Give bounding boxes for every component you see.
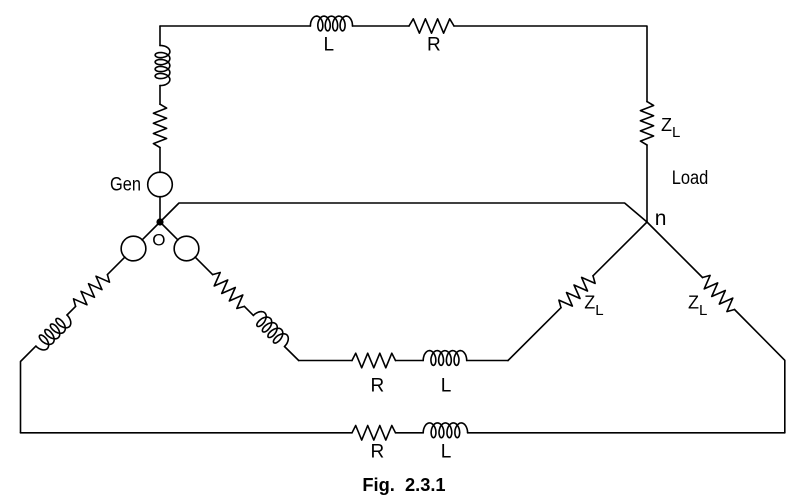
wire diagonal up toward ZL (load phase C): [508, 308, 561, 361]
resistor R (middle line): [352, 353, 396, 368]
wire between resistor and coil (phase B): [67, 306, 76, 315]
resistor (gen phase B, diagonal): [74, 275, 110, 307]
wire from top-left corner to inductor L (top line): [160, 25, 310, 27]
wire from node n down-right to ZL (load phase B): [647, 222, 703, 278]
resistor (gen phase C, diagonal): [213, 273, 245, 309]
wire from R to top-right corner and down to ZL (load phase A): [454, 26, 647, 102]
inductor L (middle line): [423, 351, 467, 366]
svg-text:ZL: ZL: [688, 293, 707, 319]
wire from resistor to Gen source circle: [159, 148, 161, 173]
resistor ZL (load phase B, diagonal): [703, 275, 735, 311]
svg-text:L: L: [324, 35, 335, 56]
wire from ZL to bottom-right corner and down (load phase B): [735, 310, 785, 433]
wire between L and R (bottom line): [396, 432, 424, 434]
svg-text:R: R: [427, 35, 441, 56]
inductor (gen phase A, vertical coil): [155, 46, 170, 86]
wire from node O to node n (neutral link): [160, 203, 647, 222]
svg-text:L: L: [441, 442, 452, 463]
wire from L to diagonal corner (middle line): [467, 360, 508, 362]
resistor ZL (load phase A, vertical): [640, 102, 653, 145]
svg-text:Load: Load: [672, 168, 709, 189]
wire from coil to corner of middle line (phase C): [285, 347, 299, 361]
wire from ZL to node n (load phase C): [593, 222, 647, 276]
generator source (circle, phase B lower-left): [121, 236, 146, 261]
wire from R to bottom-left corner (bottom line): [21, 432, 353, 434]
svg-text:Fig. 2.3.1: Fig. 2.3.1: [362, 475, 445, 495]
wire from Gen circle to star point O: [159, 197, 161, 222]
wire from phase-B circle to resistor: [107, 257, 125, 275]
wire from O to phase-B source circle: [142, 222, 160, 240]
resistor R (top line): [409, 19, 454, 33]
inductor L (bottom line): [423, 423, 467, 438]
svg-text:O: O: [152, 231, 165, 250]
svg-text:R: R: [371, 442, 385, 463]
svg-text:n: n: [655, 207, 667, 230]
svg-text:ZL: ZL: [584, 293, 603, 319]
generator source Gen (circle, phase A): [148, 172, 173, 197]
svg-text:Gen: Gen: [110, 174, 141, 195]
wire from corner to resistor R (middle line): [299, 360, 352, 362]
generator source (circle, phase C lower-right): [174, 236, 199, 261]
wire from phase-C circle to resistor: [195, 257, 213, 275]
inductor L (top line): [310, 16, 352, 31]
inductor (gen phase B, diagonal coil): [36, 315, 71, 350]
resistor (gen phase A, vertical): [153, 104, 166, 147]
wire from bottom-right corner to inductor L (bottom line): [468, 432, 785, 434]
resistor ZL (load phase C, diagonal): [559, 276, 595, 308]
node O (star point, filled dot): [156, 218, 163, 225]
wire from top-left corner down to coil (gen phase A): [159, 26, 161, 46]
svg-text:R: R: [371, 376, 385, 397]
wire between L and R (top line): [353, 25, 410, 27]
inductor (gen phase C, diagonal coil): [253, 312, 288, 347]
svg-text:ZL: ZL: [661, 115, 680, 141]
wire from coil to bottom-left corner and down (phase B): [21, 346, 36, 433]
svg-text:L: L: [441, 376, 452, 397]
wire between coil and resistor (gen phase A): [159, 86, 161, 105]
wire between R and L (middle line): [396, 360, 424, 362]
wire between resistor and coil (phase C): [244, 306, 253, 315]
resistor R (bottom line): [352, 426, 396, 441]
wire from O to phase-C source circle: [160, 222, 178, 240]
wire from ZL down to node n: [646, 145, 648, 222]
